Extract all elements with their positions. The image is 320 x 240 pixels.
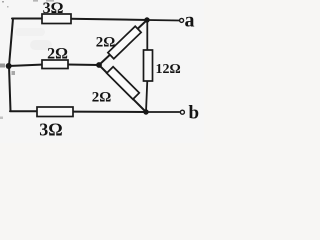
background paper	[0, 0, 204, 143]
svg-text:3Ω: 3Ω	[39, 120, 62, 140]
wire top rail left	[12, 18, 44, 20]
wire middle rail to center node	[67, 64, 99, 67]
wire node to terminal b	[146, 111, 180, 113]
wire left vertical	[9, 19, 13, 112]
wire node to terminal a	[147, 19, 181, 22]
svg-text:3Ω: 3Ω	[43, 0, 64, 17]
wire bottom rail right	[71, 111, 147, 113]
node junction center	[96, 62, 102, 68]
resistor 2ohm middle box	[42, 60, 68, 69]
svg-text:12Ω: 12Ω	[156, 62, 181, 77]
terminal a circle	[180, 18, 184, 22]
resistor 2ohm upper diagonal box	[108, 26, 141, 59]
scan noise specks	[0, 0, 54, 119]
svg-text:b: b	[189, 103, 200, 124]
resistor 3ohm top box	[42, 14, 71, 24]
node junction top right	[144, 17, 149, 22]
resistor 3ohm bottom box	[37, 107, 73, 117]
terminal b circle	[180, 110, 184, 114]
node junction bottom right	[143, 109, 148, 114]
wire upper diagonal	[99, 20, 147, 65]
wire 12ohm lower lead	[146, 81, 147, 113]
svg-text:a: a	[185, 10, 195, 32]
wire middle rail left	[9, 65, 45, 67]
svg-text:2Ω: 2Ω	[96, 35, 116, 51]
wire lower diagonal	[99, 65, 146, 112]
wire top rail right	[70, 19, 148, 20]
resistor 2ohm lower diagonal box	[107, 67, 140, 100]
svg-text:2Ω: 2Ω	[92, 90, 112, 106]
wire 12ohm upper lead	[146, 20, 148, 51]
node junction left	[6, 63, 12, 69]
resistor 12ohm box	[144, 50, 153, 81]
wire bottom rail left	[10, 110, 39, 112]
